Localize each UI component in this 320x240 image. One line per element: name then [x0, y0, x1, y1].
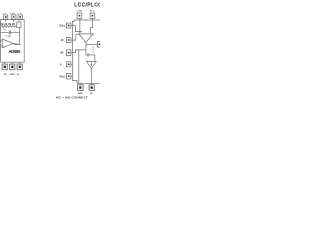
wire output to right pin — [86, 44, 98, 46]
wire inverting input — [1, 40, 3, 42]
pin20 dot — [79, 15, 81, 17]
switch control dashed — [92, 47, 94, 54]
svg-text:GND: GND — [10, 74, 15, 76]
wire pin1 down jog — [91, 18, 93, 33]
wire noninverting input — [1, 45, 3, 47]
wire GND stub — [79, 83, 81, 85]
wire V- stub — [71, 63, 73, 65]
svg-text:NULL: NULL — [60, 76, 67, 78]
0V dot — [91, 86, 93, 88]
wire A2 output down — [85, 42, 87, 55]
wire -IN stub — [71, 39, 76, 41]
pin GND bottom box — [78, 85, 84, 91]
wire pin5 stub — [11, 62, 13, 64]
op-amp A2 — [79, 34, 94, 42]
wire 0V stub — [91, 83, 93, 85]
switch S1 contact — [87, 54, 89, 56]
pin -IN left box — [66, 38, 71, 43]
GND dot — [79, 86, 81, 88]
wire +IN feedback — [76, 50, 86, 53]
svg-text:+IN: +IN — [60, 53, 64, 55]
pin 1 top box — [4, 15, 8, 19]
wire pin3 to R3 — [18, 19, 20, 22]
svg-text:LCC/PLCC: LCC/PLCC — [74, 3, 100, 9]
pin 2 top box — [11, 15, 16, 19]
svg-text:NC: NC — [90, 11, 95, 13]
pin right box cut — [97, 42, 101, 48]
pin 4 dot — [4, 66, 6, 68]
right pin dot — [99, 44, 101, 46]
pin 4 bottom box — [2, 64, 7, 70]
pin 3 dot — [19, 16, 21, 18]
package U1 DIP outline — [1, 20, 25, 63]
wire -IN route — [76, 35, 79, 41]
pin NULL2 left box — [66, 74, 71, 79]
svg-text:-IN: -IN — [60, 40, 63, 42]
package U2 LCC outline — [72, 20, 100, 83]
pin 0V bottom box — [89, 85, 94, 91]
svg-text:GND: GND — [78, 93, 83, 95]
wire NULL route — [75, 26, 82, 32]
NULL2 dot — [68, 75, 70, 77]
wire internal down — [78, 50, 80, 83]
svg-text:VS: VS — [17, 13, 22, 15]
pin1 dot — [92, 15, 94, 17]
svg-text:V-: V- — [60, 64, 62, 66]
-IN dot — [68, 39, 70, 41]
NULL dot — [68, 25, 70, 27]
op-amp A3 — [87, 61, 97, 68]
wire switch to A3 — [89, 55, 95, 62]
V- dot — [68, 64, 70, 66]
pin 6 dot — [19, 66, 21, 68]
svg-text:NULL: NULL — [59, 25, 66, 27]
wire pin2 stub down — [13, 19, 15, 22]
capacitor C1 wire — [1, 31, 20, 33]
wire pin20 down — [79, 18, 81, 33]
resistor R3 vertical box — [17, 22, 21, 28]
pin 6 bottom box — [17, 64, 22, 70]
wire NULL2 stub — [71, 75, 73, 77]
pin V- left box — [66, 62, 71, 67]
A3 internal mark — [91, 62, 92, 65]
svg-text:-VS: -VS — [3, 74, 7, 76]
wire pin6 stub — [19, 62, 21, 64]
wire +IN stub — [71, 52, 76, 54]
svg-text:NC = NO CONNECT: NC = NO CONNECT — [56, 96, 88, 100]
resistor R1 R2 zigzag — [1, 26, 17, 28]
pin 5 bottom box — [10, 64, 15, 70]
wire pin1 stub down — [5, 19, 7, 22]
svg-text:VIN: VIN — [10, 13, 15, 15]
capacitor C1 plates — [9, 30, 10, 34]
op-amp A1 — [2, 39, 13, 48]
wire R3 to output node — [19, 28, 21, 45]
pin 1 top box — [90, 13, 95, 18]
pin 2 dot — [13, 16, 15, 18]
svg-text:AD585: AD585 — [8, 49, 21, 54]
wire A3 output down — [90, 68, 93, 84]
pin 1 dot — [5, 16, 7, 18]
svg-text:2k 2k 2k 2k: 2k 2k 2k 2k — [0, 22, 15, 26]
wire NULL stub — [71, 25, 76, 27]
svg-text:+VS: +VS — [77, 11, 82, 13]
pin 20 top box — [77, 13, 82, 18]
pin 3 top box — [18, 15, 22, 19]
pin NULL left box — [66, 23, 71, 28]
wire pin4 stub — [4, 62, 6, 64]
+IN dot — [68, 52, 70, 54]
pin +IN left box — [66, 50, 71, 56]
pin 5 dot — [11, 66, 13, 68]
wire A1 output — [13, 43, 21, 44]
